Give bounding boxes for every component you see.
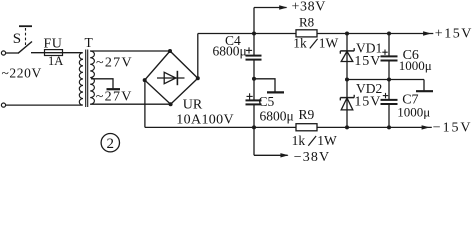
svg-text:T: T	[85, 35, 94, 50]
wire middle rail	[347, 79, 424, 81]
zener diode VD2	[340, 80, 354, 128]
junction node bridge left	[143, 78, 147, 82]
arrowhead +15V	[423, 31, 431, 35]
ground (center tap)	[107, 88, 121, 90]
svg-text:R8: R8	[299, 14, 314, 29]
wire +38V rail	[198, 33, 433, 35]
wire center column	[253, 8, 255, 156]
svg-text:S: S	[13, 31, 21, 47]
bridge rectifier UR body	[145, 51, 198, 104]
bridge UR internal diode	[157, 71, 185, 85]
svg-text:1000μ: 1000μ	[399, 58, 432, 73]
svg-text:1A: 1A	[48, 54, 63, 68]
junction node C4 top	[252, 32, 256, 36]
fuse FU	[45, 50, 63, 56]
junction node C6 bottom	[387, 78, 391, 82]
wire	[6, 52, 19, 54]
C7 plus sign	[383, 93, 388, 98]
svg-text:15V: 15V	[354, 54, 381, 69]
wire center tap	[91, 79, 113, 89]
svg-text:FU: FU	[44, 37, 63, 52]
junction node C6 top	[387, 32, 391, 36]
svg-text:1W: 1W	[319, 36, 339, 51]
capacitor C5	[246, 100, 262, 104]
svg-text:1k: 1k	[293, 36, 307, 51]
junction node VD1 bottom	[345, 78, 349, 82]
wire -38V stub	[254, 154, 288, 156]
svg-text:6800μ: 6800μ	[213, 43, 247, 58]
arrowhead -15V	[422, 125, 430, 129]
svg-text:~27V: ~27V	[96, 55, 133, 70]
svg-text:2: 2	[107, 136, 115, 152]
terminal top-left	[1, 51, 5, 55]
svg-text:1000μ: 1000μ	[397, 104, 430, 119]
svg-text:C5: C5	[259, 94, 275, 109]
capacitor C6	[381, 56, 398, 60]
junction node C7 bottom	[387, 125, 391, 129]
resistor R8	[296, 30, 317, 37]
junction node VD2 bottom	[345, 125, 349, 129]
terminal bottom-left	[1, 103, 5, 107]
svg-text:+15V: +15V	[435, 26, 472, 41]
wire ground branch mid	[254, 79, 275, 92]
junction node VD1 top	[345, 32, 349, 36]
svg-text:~220V: ~220V	[2, 65, 42, 80]
zener diode VD1	[340, 34, 354, 80]
C4 plus sign	[246, 47, 252, 53]
wire +38V stub	[254, 7, 287, 9]
wire bridge + output up	[197, 34, 199, 79]
C6 plus sign	[382, 50, 387, 55]
svg-text:10A100V: 10A100V	[176, 112, 234, 127]
capacitor C4	[246, 56, 262, 60]
junction node bridge right	[196, 76, 200, 80]
svg-text:6800μ: 6800μ	[260, 108, 294, 123]
junction node bridge bottom	[169, 102, 173, 106]
ground branch right	[423, 80, 425, 91]
wire secondary top	[90, 50, 170, 52]
wire	[31, 52, 82, 54]
junction node mid filter	[252, 77, 256, 81]
wire	[6, 104, 82, 106]
svg-text:1k: 1k	[292, 133, 306, 148]
transformer T core	[86, 50, 88, 108]
switch S blade	[18, 42, 32, 54]
transformer T primary winding	[79, 53, 83, 105]
svg-text:UR: UR	[183, 97, 203, 112]
junction node C5 bottom	[252, 125, 256, 129]
wire bridge - output down	[144, 80, 146, 127]
wire -38V rail	[145, 126, 432, 128]
figure number 2 circled	[101, 134, 119, 152]
C5 plus sign	[247, 93, 253, 99]
svg-text:−38V: −38V	[294, 150, 330, 162]
svg-text:−15V: −15V	[433, 121, 472, 136]
junction node bridge top	[168, 49, 172, 53]
switch S actuator dashed link	[25, 28, 27, 47]
wire secondary bottom	[90, 103, 170, 105]
svg-text:~27V: ~27V	[96, 90, 133, 105]
transformer T secondary winding	[90, 51, 94, 104]
ground (right)	[416, 90, 433, 92]
capacitor C6 leads	[388, 34, 390, 80]
svg-text:15V: 15V	[354, 95, 381, 110]
svg-text:+38V: +38V	[292, 0, 326, 15]
arrowhead -38V	[280, 153, 288, 157]
svg-text:R9: R9	[299, 107, 315, 122]
svg-text:1W: 1W	[317, 133, 337, 148]
capacitor C7	[381, 100, 398, 104]
arrowhead +38V	[279, 5, 287, 9]
resistor R9	[296, 124, 317, 131]
capacitor C7 leads	[388, 80, 390, 128]
switch S actuator bar	[19, 25, 32, 27]
ground (mid filter)	[267, 91, 284, 93]
